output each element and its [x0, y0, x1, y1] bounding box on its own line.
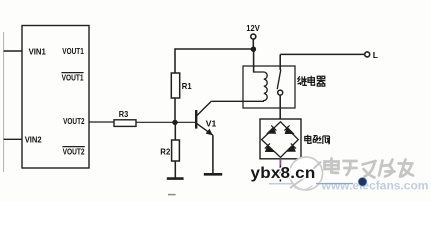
wire VIN1 lead	[4, 50, 22, 52]
wire input bus (left edge, faint)	[3, 32, 5, 172]
wire bridge to ground (under watermark)	[279, 159, 281, 182]
watermark navy dot logo	[358, 178, 367, 187]
svg-text:ybx8.cn: ybx8.cn	[251, 165, 316, 182]
wire VIN2 lead	[4, 138, 22, 140]
wire switch contact to bridge	[279, 95, 281, 119]
pin VOUT2-bar overline	[62, 146, 84, 148]
diode D4 (bottom-right)	[287, 143, 296, 151]
IC U1 box	[22, 26, 89, 169]
pin VOUT1-bar overline	[61, 72, 83, 74]
label solenoid valve "dian ci fa" char3	[323, 136, 330, 144]
relay coil K1	[254, 72, 268, 101]
relay switch blade	[277, 70, 281, 90]
wire node B to R2	[174, 122, 176, 140]
transistor V1 collector stroke	[197, 101, 212, 115]
svg-text:VOUT1: VOUT1	[62, 47, 84, 56]
wire R1 to node B	[174, 98, 176, 122]
diode D3 (bottom-left)	[265, 143, 274, 151]
wire L rail	[280, 53, 364, 55]
wire switch to L rail	[279, 54, 281, 70]
wire R3 to node B	[136, 121, 175, 123]
svg-text:V1: V1	[206, 118, 217, 128]
label relay K "ji dian qi" char3	[317, 76, 326, 86]
diode D2 (top-right)	[284, 125, 293, 133]
wire collector to relay coil	[211, 100, 264, 102]
node B junction dot	[172, 120, 177, 125]
svg-text:12V: 12V	[246, 23, 260, 33]
wire R2 to ground	[174, 161, 176, 178]
label relay K "ji dian qi" char2	[308, 76, 315, 85]
wire node B to base	[175, 121, 195, 123]
svg-text:R1: R1	[182, 81, 192, 91]
resistor R1	[171, 73, 179, 98]
watermark logo circle	[290, 157, 323, 190]
svg-text:VOUT2: VOUT2	[63, 117, 85, 126]
wire node P to relay coil	[253, 49, 255, 72]
svg-text:VIN1: VIN1	[29, 47, 47, 56]
wire emitter to ground	[212, 135, 214, 174]
svg-text:R2: R2	[160, 147, 170, 157]
ground G1	[167, 177, 184, 180]
bridge diamond	[262, 122, 299, 158]
ground G2	[204, 173, 222, 176]
resistor R3	[114, 120, 136, 127]
terminal L	[365, 52, 370, 57]
transistor V1 emitter stroke with arrow	[197, 124, 213, 136]
relay switch contact circle	[278, 90, 283, 95]
relay K box	[243, 66, 295, 108]
svg-text:www.elecfans.com: www.elecfans.com	[320, 181, 428, 193]
wire colour artifact	[279, 159, 281, 166]
svg-text:VIN2: VIN2	[25, 135, 43, 144]
wire 12V to node P	[252, 39, 254, 49]
svg-text:VOUT2: VOUT2	[63, 147, 85, 156]
transistor V1 emitter arrowhead	[206, 129, 213, 136]
ground G1 lower tick	[168, 194, 176, 196]
transistor V1 base bar	[195, 110, 197, 129]
svg-text:VOUT1: VOUT1	[62, 73, 84, 82]
wire 12V rail	[175, 49, 254, 73]
watermark dianzi fashaoyou (grey brush characters)	[325, 159, 414, 178]
terminal 12V	[251, 34, 256, 39]
resistor R2	[172, 140, 180, 161]
bridge box	[260, 119, 301, 159]
wire VOUT2 to R3	[89, 121, 114, 123]
label relay K "ji dian qi" char1	[298, 76, 307, 85]
node P junction dot	[251, 47, 256, 52]
diode D1 (top-left)	[268, 125, 277, 133]
watermark blue underline	[269, 183, 331, 185]
label solenoid valve "dian ci fa" char1	[305, 135, 311, 144]
label solenoid valve "dian ci fa" char2	[313, 136, 321, 143]
svg-text:L: L	[373, 50, 378, 60]
watermark blue strike line	[316, 183, 353, 185]
svg-text:R3: R3	[119, 110, 129, 119]
